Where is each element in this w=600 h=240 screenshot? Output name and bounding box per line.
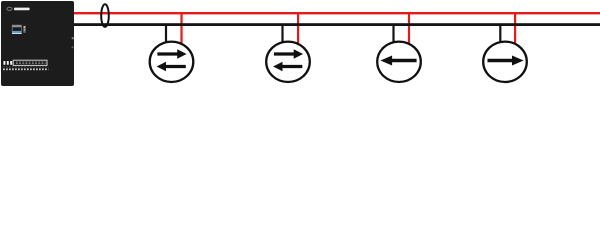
screw 2 on U1 right edge bbox=[72, 46, 74, 48]
wire: black drop to meter M4 bbox=[499, 25, 501, 43]
wire: black drop to meter M2 bbox=[281, 25, 283, 43]
meter M2 (bidirectional) bbox=[266, 42, 310, 82]
terminal strip row 1 on U1 bbox=[3, 60, 48, 65]
wire: black drop to meter M1 bbox=[165, 25, 167, 43]
wire: red feeder drop to meter M1 bbox=[180, 13, 182, 44]
terminal strip row 2 on U1 bbox=[3, 67, 49, 70]
display icon on U1 bbox=[12, 25, 26, 34]
wire: black bus (lower) bbox=[74, 23, 600, 26]
wire: red feeder drop to meter M2 bbox=[297, 13, 299, 44]
wire: black drop to meter M3 bbox=[392, 25, 394, 43]
meter M4 (export, right arrow) bbox=[483, 42, 527, 82]
meter M3 (import, left arrow) bbox=[377, 42, 421, 82]
CT T1 (toroid over feeders) bbox=[101, 4, 109, 27]
wire: red feeder drop to meter M4 bbox=[514, 13, 516, 44]
meter M1 (bidirectional) bbox=[150, 42, 194, 82]
wire: red feeder drop to meter M3 bbox=[408, 13, 410, 44]
logo mark on U1 bbox=[7, 7, 30, 10]
wire: red bus (upper) bbox=[74, 12, 600, 14]
screw on U1 right edge bbox=[72, 37, 74, 39]
controller U1 (metering device photo) bbox=[1, 1, 74, 86]
